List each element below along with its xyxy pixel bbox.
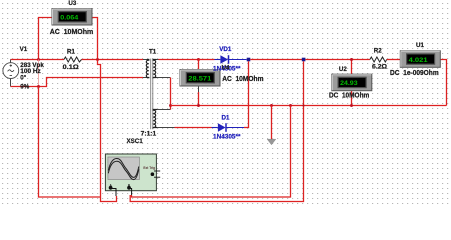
wire: T1 secondary1 top to VD1 anode [153,59,198,61]
voltmeter U2 (DC) [332,74,372,91]
node: junction U2 bottom [350,104,353,107]
value labels V1 [20,62,44,91]
wire: V1 bottom branch down to scope A rail [39,87,101,198]
resistor R1 [64,57,82,62]
wire: VD1 cathode down to D1 cathode [248,61,250,127]
label U4 [222,65,230,72]
node: junction ground symbol on rail [270,104,273,107]
value label U1 [390,68,439,77]
label U3 [68,0,76,7]
wire: U2 top pin [351,60,353,75]
svg-text:24.93: 24.93 [340,80,358,87]
wire: U2 bottom pin [351,90,353,105]
node: junction V1-bottom branch [37,85,40,88]
wire: T1 secondary2 bottom to D1 anode [157,127,212,129]
svg-text:0.1Ω: 0.1Ω [63,64,79,71]
wire: U3 left terminal and vertical [39,18,53,60]
svg-text:1N4305**: 1N4305** [213,134,241,141]
svg-text:Ext Trig: Ext Trig [143,166,155,170]
svg-text:D1: D1 [222,114,230,121]
wire: U1 right down to ground rail [440,60,446,106]
wire: R2 to U1 left [387,59,401,61]
wire: secondary2 top elbow to ground rail [153,106,170,110]
label V1 [20,46,28,53]
node: blue square junction at R2 branch [302,58,306,62]
value label R2 [372,64,387,71]
svg-text:6.2Ω: 6.2Ω [372,64,387,71]
voltmeter U4 (AC) [180,70,220,87]
transformer T1 secondary winding 2 [153,110,157,128]
value label U3 [50,27,94,36]
svg-text:7:1:1: 7:1:1 [141,131,157,138]
label R1 [67,48,75,55]
svg-text:U3: U3 [68,0,76,7]
node: junction VD1 anode / U4 top [197,58,200,61]
wire: scope A low rail to output node [130,61,304,201]
voltage source V1 [3,60,19,79]
label XSC1 [127,138,144,145]
value label U4 [222,74,264,83]
svg-text:0.064: 0.064 [60,15,78,22]
wire: V1 top to R1 [11,59,65,61]
transformer T1 secondary winding 1 [153,60,156,78]
svg-text:AC 10MOhm: AC 10MOhm [222,74,264,83]
wire: probe A tap from R1-right down to scope [98,60,117,202]
label T1 [149,49,157,56]
node: junction U2 top [350,58,353,61]
svg-text:U1: U1 [416,42,424,49]
label VD1 [219,46,232,53]
ground [267,106,276,145]
wire: scope B to return rail up to ground rail [132,106,291,198]
svg-text:R1: R1 [67,48,75,55]
wire: V1 bottom to T1 primary bottom [11,78,149,87]
node: junction R1-right [96,58,99,61]
transformer T1 primary winding [146,60,149,78]
svg-text:VD1: VD1 [219,46,232,53]
label U1 [416,42,424,49]
value label VD1 [213,66,241,73]
svg-text:R2: R2 [374,48,382,55]
svg-text:DC 1e-009Ohm: DC 1e-009Ohm [390,68,439,77]
wire: U3 right terminal and vertical [92,18,98,60]
node: blue square junction VD1 cathode [247,58,251,62]
svg-text:9%: 9% [20,84,29,91]
value label U2 [329,90,370,99]
voltmeter U3 (AC) [52,9,92,26]
svg-text:V1: V1 [20,46,28,53]
resistor R2 [370,57,387,62]
transformer T1 core [151,59,153,130]
wire: secondary1 bottom down to ground rail [153,78,170,106]
wire: D1 cathode corner [244,127,249,129]
label R2 [374,48,382,55]
svg-text:U4: U4 [222,65,230,72]
node: junction ground-rail left end [169,104,172,107]
svg-text:0°: 0° [20,74,26,81]
wire: VD1 anode feed [199,59,215,61]
svg-text:XSC1: XSC1 [127,138,144,145]
svg-text:U2: U2 [339,66,347,73]
diode VD1 [215,55,247,64]
node: junction B-return on rail [289,104,292,107]
oscilloscope XSC1 [105,154,160,196]
value label T1 [141,131,157,138]
svg-text:4.021: 4.021 [409,57,429,64]
svg-text:T1: T1 [149,49,157,56]
diode D1 [212,123,245,132]
label D1 [222,114,230,121]
wire: mid ground rail [171,105,447,107]
node: junction U3-left on V1 wire [37,58,40,61]
wire: U4 bottom pin [198,86,200,106]
wire: U4 top pin [198,60,200,71]
ammeter U1 (DC) [400,51,440,68]
value label D1 [213,134,241,141]
value label R1 [63,64,79,71]
wire: pale vertical segment through V1 labels [38,60,40,87]
node: junction U4 bottom on rail [197,104,200,107]
wire: R1 to T1 primary top [82,59,149,61]
svg-text:DC 10MOhm: DC 10MOhm [329,90,370,99]
svg-text:AC 10MOhm: AC 10MOhm [50,27,94,36]
wire: VD1 cathode to branch node [250,59,302,61]
wire: branch node to R2 [305,59,370,61]
label U2 [339,66,347,73]
svg-text:28.571: 28.571 [188,76,212,83]
